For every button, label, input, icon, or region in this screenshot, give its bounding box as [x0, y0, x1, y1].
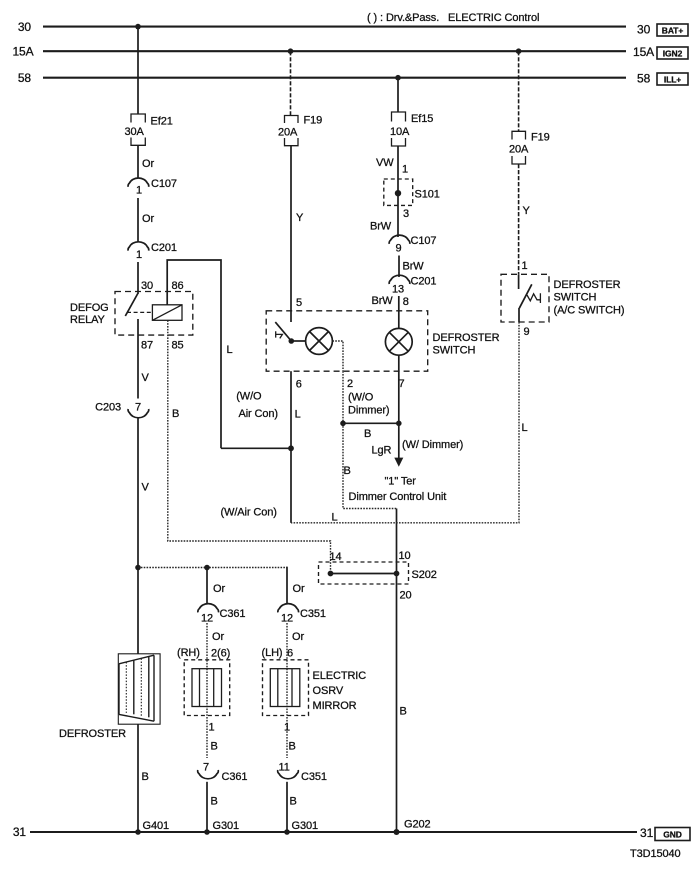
- junction C361 tap: [204, 565, 210, 571]
- svg-text:C201: C201: [411, 276, 437, 288]
- svg-text:(W/O: (W/O: [236, 391, 262, 403]
- RH mirror heater box: [184, 660, 230, 716]
- wire pin 2 down (B dotted): [342, 371, 344, 423]
- svg-text:BrW: BrW: [372, 295, 394, 307]
- connector C361 pin 12: [198, 604, 219, 613]
- bus 58: [43, 77, 626, 79]
- svg-text:( ) : Drv.&Pass.: ( ) : Drv.&Pass.: [367, 12, 439, 24]
- svg-text:9: 9: [396, 243, 402, 255]
- label DEFOG RELAY: [70, 302, 109, 326]
- svg-text:G202: G202: [404, 819, 431, 831]
- node B option right: [396, 421, 402, 427]
- relay coil: [152, 305, 182, 321]
- svg-text:87: 87: [141, 340, 153, 352]
- A/C switch actuator hook: [527, 293, 540, 303]
- svg-text:58: 58: [637, 72, 651, 86]
- wire C201 to relay pin 30: [137, 262, 139, 292]
- A/C defroster switch box: [501, 274, 549, 322]
- wire corner down to C351: [286, 568, 289, 604]
- svg-text:12: 12: [281, 613, 293, 625]
- svg-text:1: 1: [284, 722, 290, 734]
- GND terminal box: [655, 828, 690, 841]
- svg-text:S101: S101: [415, 189, 440, 201]
- svg-text:1: 1: [136, 249, 142, 261]
- svg-text:C107: C107: [411, 235, 437, 247]
- LH mirror heater box: [263, 660, 309, 716]
- wire relay 86 up and over (L): [167, 260, 221, 448]
- node L junction: [288, 445, 294, 451]
- ground G202 junction: [394, 829, 400, 835]
- wire pin 8 stub into lamp: [398, 311, 400, 328]
- switch pin 5 stub: [290, 311, 292, 322]
- relay contact blade: [125, 292, 138, 317]
- wire bus30 to fuse Ef21: [137, 27, 139, 114]
- svg-text:Or: Or: [212, 631, 224, 643]
- node switch to lamp: [289, 338, 295, 344]
- wire pin 6 down (L): [290, 371, 292, 448]
- svg-text:S202: S202: [412, 569, 437, 581]
- IGN2 terminal box: [657, 47, 688, 59]
- svg-text:C351: C351: [300, 608, 326, 620]
- relay box: [115, 292, 193, 336]
- S202 internal link: [331, 573, 397, 575]
- svg-text:Dimmer Control Unit: Dimmer Control Unit: [349, 491, 447, 503]
- connector C107 pin 9: [389, 235, 410, 244]
- svg-text:ELECTRIC: ELECTRIC: [313, 670, 367, 682]
- connector C351 pin 11: [278, 770, 299, 779]
- wire C351 to ground G301: [286, 782, 288, 832]
- svg-text:3: 3: [403, 208, 409, 220]
- wire relay pin 86 stub: [166, 292, 168, 305]
- svg-text:30: 30: [141, 280, 153, 292]
- wire C107 to C201: [398, 256, 400, 278]
- svg-text:2: 2: [347, 378, 353, 390]
- svg-text:B: B: [172, 408, 179, 420]
- label DEFROSTER SWITCH: [433, 332, 500, 357]
- fuse F19 20A: [285, 116, 299, 146]
- svg-text:F19: F19: [531, 132, 550, 144]
- wire tap to C361: [206, 568, 208, 604]
- svg-text:B: B: [400, 706, 407, 718]
- junction on bus 58: [395, 75, 401, 81]
- ground bus 31: [30, 831, 637, 833]
- svg-text:V: V: [142, 482, 150, 494]
- svg-text:DEFROSTER: DEFROSTER: [59, 728, 126, 740]
- svg-text:Or: Or: [293, 583, 305, 595]
- svg-text:7: 7: [135, 402, 141, 414]
- wire fuse to C107: [137, 145, 139, 177]
- label DEFROSTER SWITCH (A/C SWITCH): [554, 279, 625, 317]
- svg-text:1: 1: [136, 185, 142, 197]
- svg-text:B: B: [289, 741, 296, 753]
- wire C107 to C201: [137, 198, 139, 242]
- connector C361 pin 7: [198, 770, 219, 779]
- label ELECTRIC OSRV MIRROR: [313, 670, 367, 712]
- svg-text:(RH): (RH): [177, 647, 200, 659]
- svg-text:VW: VW: [376, 157, 394, 169]
- svg-text:20: 20: [400, 590, 412, 602]
- wire lamp to pin 2 (dotted option): [332, 341, 343, 371]
- wire relay pin 85 down (B, option): [168, 320, 331, 573]
- svg-text:Y: Y: [296, 212, 304, 224]
- wire C201 to switch pin 8: [398, 296, 400, 311]
- wire C203 to defroster: [137, 418, 139, 654]
- svg-text:BrW: BrW: [370, 221, 392, 233]
- svg-text:10A: 10A: [390, 126, 410, 138]
- wire fuse to S101: [397, 146, 399, 193]
- illumination lamp L2: [385, 328, 412, 355]
- svg-text:2(6): 2(6): [211, 648, 230, 660]
- header note: [367, 12, 539, 24]
- svg-text:6: 6: [296, 379, 302, 391]
- wire B dotted down from node: [343, 423, 397, 508]
- connector C201 pin 13: [389, 275, 410, 284]
- S202 box: [319, 562, 409, 584]
- wire S202 pin 20 to ground G202: [396, 574, 398, 833]
- relay actuating link (dashed): [127, 311, 152, 313]
- svg-text:"1" Ter: "1" Ter: [385, 476, 417, 488]
- ground G301 junction: [284, 829, 290, 835]
- svg-text:L: L: [295, 409, 301, 421]
- svg-text:G401: G401: [143, 820, 170, 832]
- svg-text:12: 12: [201, 613, 213, 625]
- S202 pin 14 node: [328, 571, 334, 577]
- svg-text:G301: G301: [213, 820, 240, 832]
- svg-text:B: B: [344, 465, 351, 477]
- wire mirror feed from V wire (dotted): [138, 567, 287, 569]
- wire into S202 pin 10: [396, 509, 398, 574]
- svg-text:B: B: [211, 796, 218, 808]
- svg-text:31: 31: [13, 825, 27, 839]
- A/C switch pin 1 stub: [518, 274, 520, 289]
- svg-text:C361: C361: [222, 771, 248, 783]
- wire B link horizontal: [343, 422, 399, 424]
- svg-text:20A: 20A: [278, 127, 298, 139]
- svg-text:L: L: [522, 422, 528, 434]
- bus 30: [43, 26, 626, 28]
- svg-text:5: 5: [296, 297, 302, 309]
- connector C107 pin 1: [128, 178, 149, 187]
- node B option left: [340, 421, 346, 427]
- svg-text:(W/Air Con): (W/Air Con): [221, 507, 277, 519]
- junction on bus 15A: [516, 48, 522, 54]
- RH mirror heater element: [192, 669, 222, 707]
- svg-text:30: 30: [637, 23, 651, 37]
- LH mirror heater element: [270, 669, 300, 707]
- svg-text:7: 7: [203, 762, 209, 774]
- wire node to indicator lamp: [291, 340, 305, 342]
- svg-text:DEFROSTER: DEFROSTER: [433, 332, 500, 344]
- wire L node down to W/Air Con run: [290, 448, 292, 523]
- wire to dimmer control unit with arrow: [394, 423, 403, 467]
- A/C switch blade: [519, 284, 532, 308]
- label (W/O Dimmer): [348, 392, 389, 417]
- wire fuse to switch pin 5: [290, 146, 292, 311]
- svg-text:B: B: [211, 741, 218, 753]
- svg-text:1: 1: [209, 722, 215, 734]
- junction on bus 15A: [288, 48, 294, 54]
- splice S101: [384, 179, 413, 205]
- svg-text:B: B: [290, 796, 297, 808]
- svg-text:OSRV: OSRV: [313, 685, 344, 697]
- S202 pin 10 node: [394, 571, 400, 577]
- wire pin 7 down to node: [398, 371, 400, 423]
- svg-text:20A: 20A: [509, 144, 529, 156]
- svg-text:B: B: [142, 771, 149, 783]
- svg-text:V: V: [142, 372, 150, 384]
- svg-text:86: 86: [172, 280, 184, 292]
- bus 15A: [43, 50, 626, 52]
- wire lamp to pin 7: [398, 355, 400, 371]
- wire C351 to LH mirror (dotted): [286, 623, 288, 758]
- svg-text:RELAY: RELAY: [70, 314, 106, 326]
- junction on bus 30: [135, 24, 141, 30]
- svg-text:30: 30: [18, 20, 32, 34]
- svg-text:C361: C361: [220, 608, 246, 620]
- svg-text:6: 6: [287, 648, 293, 660]
- svg-text:11: 11: [279, 762, 290, 774]
- switch box: [266, 311, 428, 371]
- wire bus58 to fuse Ef15: [397, 78, 399, 112]
- svg-text:L: L: [227, 344, 233, 356]
- connector C201 pin 1: [128, 242, 149, 251]
- fuse F19 20A: [512, 131, 526, 164]
- switch actuator hook: [276, 331, 283, 338]
- svg-text:13: 13: [392, 284, 404, 296]
- switch blade: [275, 322, 291, 341]
- wire relay pin 87 down: [137, 319, 139, 399]
- junction mirror feed tap: [135, 565, 141, 571]
- svg-text:(LH): (LH): [262, 647, 283, 659]
- svg-text:Or: Or: [142, 213, 154, 225]
- svg-text:DEFOG: DEFOG: [70, 302, 109, 314]
- svg-text:1: 1: [402, 164, 408, 176]
- svg-text:1: 1: [522, 260, 528, 272]
- svg-text:30A: 30A: [125, 126, 145, 138]
- defroster grid element: [118, 654, 160, 724]
- BAT+ terminal box: [657, 24, 688, 36]
- wire S101 to C107: [397, 193, 399, 237]
- wire defroster to ground: [137, 724, 139, 832]
- svg-text:9: 9: [524, 326, 530, 338]
- svg-text:B: B: [364, 428, 371, 440]
- svg-text:Y: Y: [523, 205, 531, 217]
- svg-text:SWITCH: SWITCH: [433, 345, 476, 357]
- svg-text:F19: F19: [304, 115, 323, 127]
- svg-text:BrW: BrW: [403, 261, 425, 273]
- A/C switch pin 9 stub: [518, 308, 520, 322]
- svg-text:8: 8: [403, 296, 409, 308]
- svg-text:15A: 15A: [12, 45, 33, 59]
- wire L horizontal into node: [221, 447, 291, 449]
- svg-text:85: 85: [172, 340, 184, 352]
- wire C361 to RH mirror (dotted): [206, 623, 208, 758]
- svg-text:Ef21: Ef21: [151, 116, 173, 128]
- svg-text:C203: C203: [95, 402, 121, 414]
- svg-text:BAT+: BAT+: [662, 26, 684, 36]
- svg-text:IGN2: IGN2: [663, 49, 683, 59]
- wire bus15A to fuse F19 (dashed feed): [290, 51, 292, 115]
- svg-text:MIRROR: MIRROR: [313, 700, 357, 712]
- fuse Ef21 30A: [131, 114, 145, 145]
- svg-text:Dimmer): Dimmer): [348, 405, 389, 417]
- svg-text:10: 10: [399, 550, 411, 562]
- svg-text:(W/ Dimmer): (W/ Dimmer): [402, 439, 463, 451]
- connector C351 pin 12: [278, 604, 299, 613]
- svg-text:C351: C351: [301, 771, 327, 783]
- svg-text:(A/C SWITCH): (A/C SWITCH): [554, 305, 625, 317]
- svg-text:SWITCH: SWITCH: [554, 292, 597, 304]
- svg-text:Or: Or: [213, 583, 225, 595]
- connector C203 pin 7: [128, 409, 149, 418]
- svg-text:31: 31: [640, 826, 654, 840]
- svg-text:Air Con): Air Con): [238, 408, 278, 420]
- svg-text:L: L: [332, 512, 338, 524]
- label (W/O Air Con): [236, 391, 278, 421]
- svg-text:LgR: LgR: [372, 445, 392, 457]
- svg-text:14: 14: [330, 551, 342, 563]
- svg-text:(W/O: (W/O: [348, 392, 374, 404]
- wire C361 to ground G301: [206, 782, 208, 832]
- ILL+ terminal box: [657, 73, 688, 85]
- svg-text:Ef15: Ef15: [411, 113, 433, 125]
- svg-text:G301: G301: [292, 820, 319, 832]
- svg-text:ELECTRIC Control: ELECTRIC Control: [448, 12, 539, 24]
- ground G301 junction: [204, 829, 210, 835]
- svg-text:Or: Or: [292, 631, 304, 643]
- svg-text:Or: Or: [142, 158, 154, 170]
- wire fuse to A/C switch (dashed feed): [518, 164, 520, 274]
- ground G401 junction: [135, 829, 141, 835]
- indicator lamp L1: [306, 328, 333, 355]
- wire bus15A to fuse F19 (dashed feed): [518, 51, 520, 131]
- svg-text:58: 58: [18, 71, 32, 85]
- svg-text:T3D15040: T3D15040: [630, 848, 681, 860]
- svg-text:DEFROSTER: DEFROSTER: [554, 279, 621, 291]
- svg-text:C201: C201: [151, 242, 177, 254]
- svg-text:15A: 15A: [633, 45, 654, 59]
- wire pin 9 down (L dotted option): [291, 322, 519, 523]
- svg-text:GND: GND: [663, 830, 682, 840]
- svg-text:ILL+: ILL+: [664, 75, 681, 85]
- svg-text:C107: C107: [151, 178, 177, 190]
- fuse Ef15 10A: [392, 112, 406, 146]
